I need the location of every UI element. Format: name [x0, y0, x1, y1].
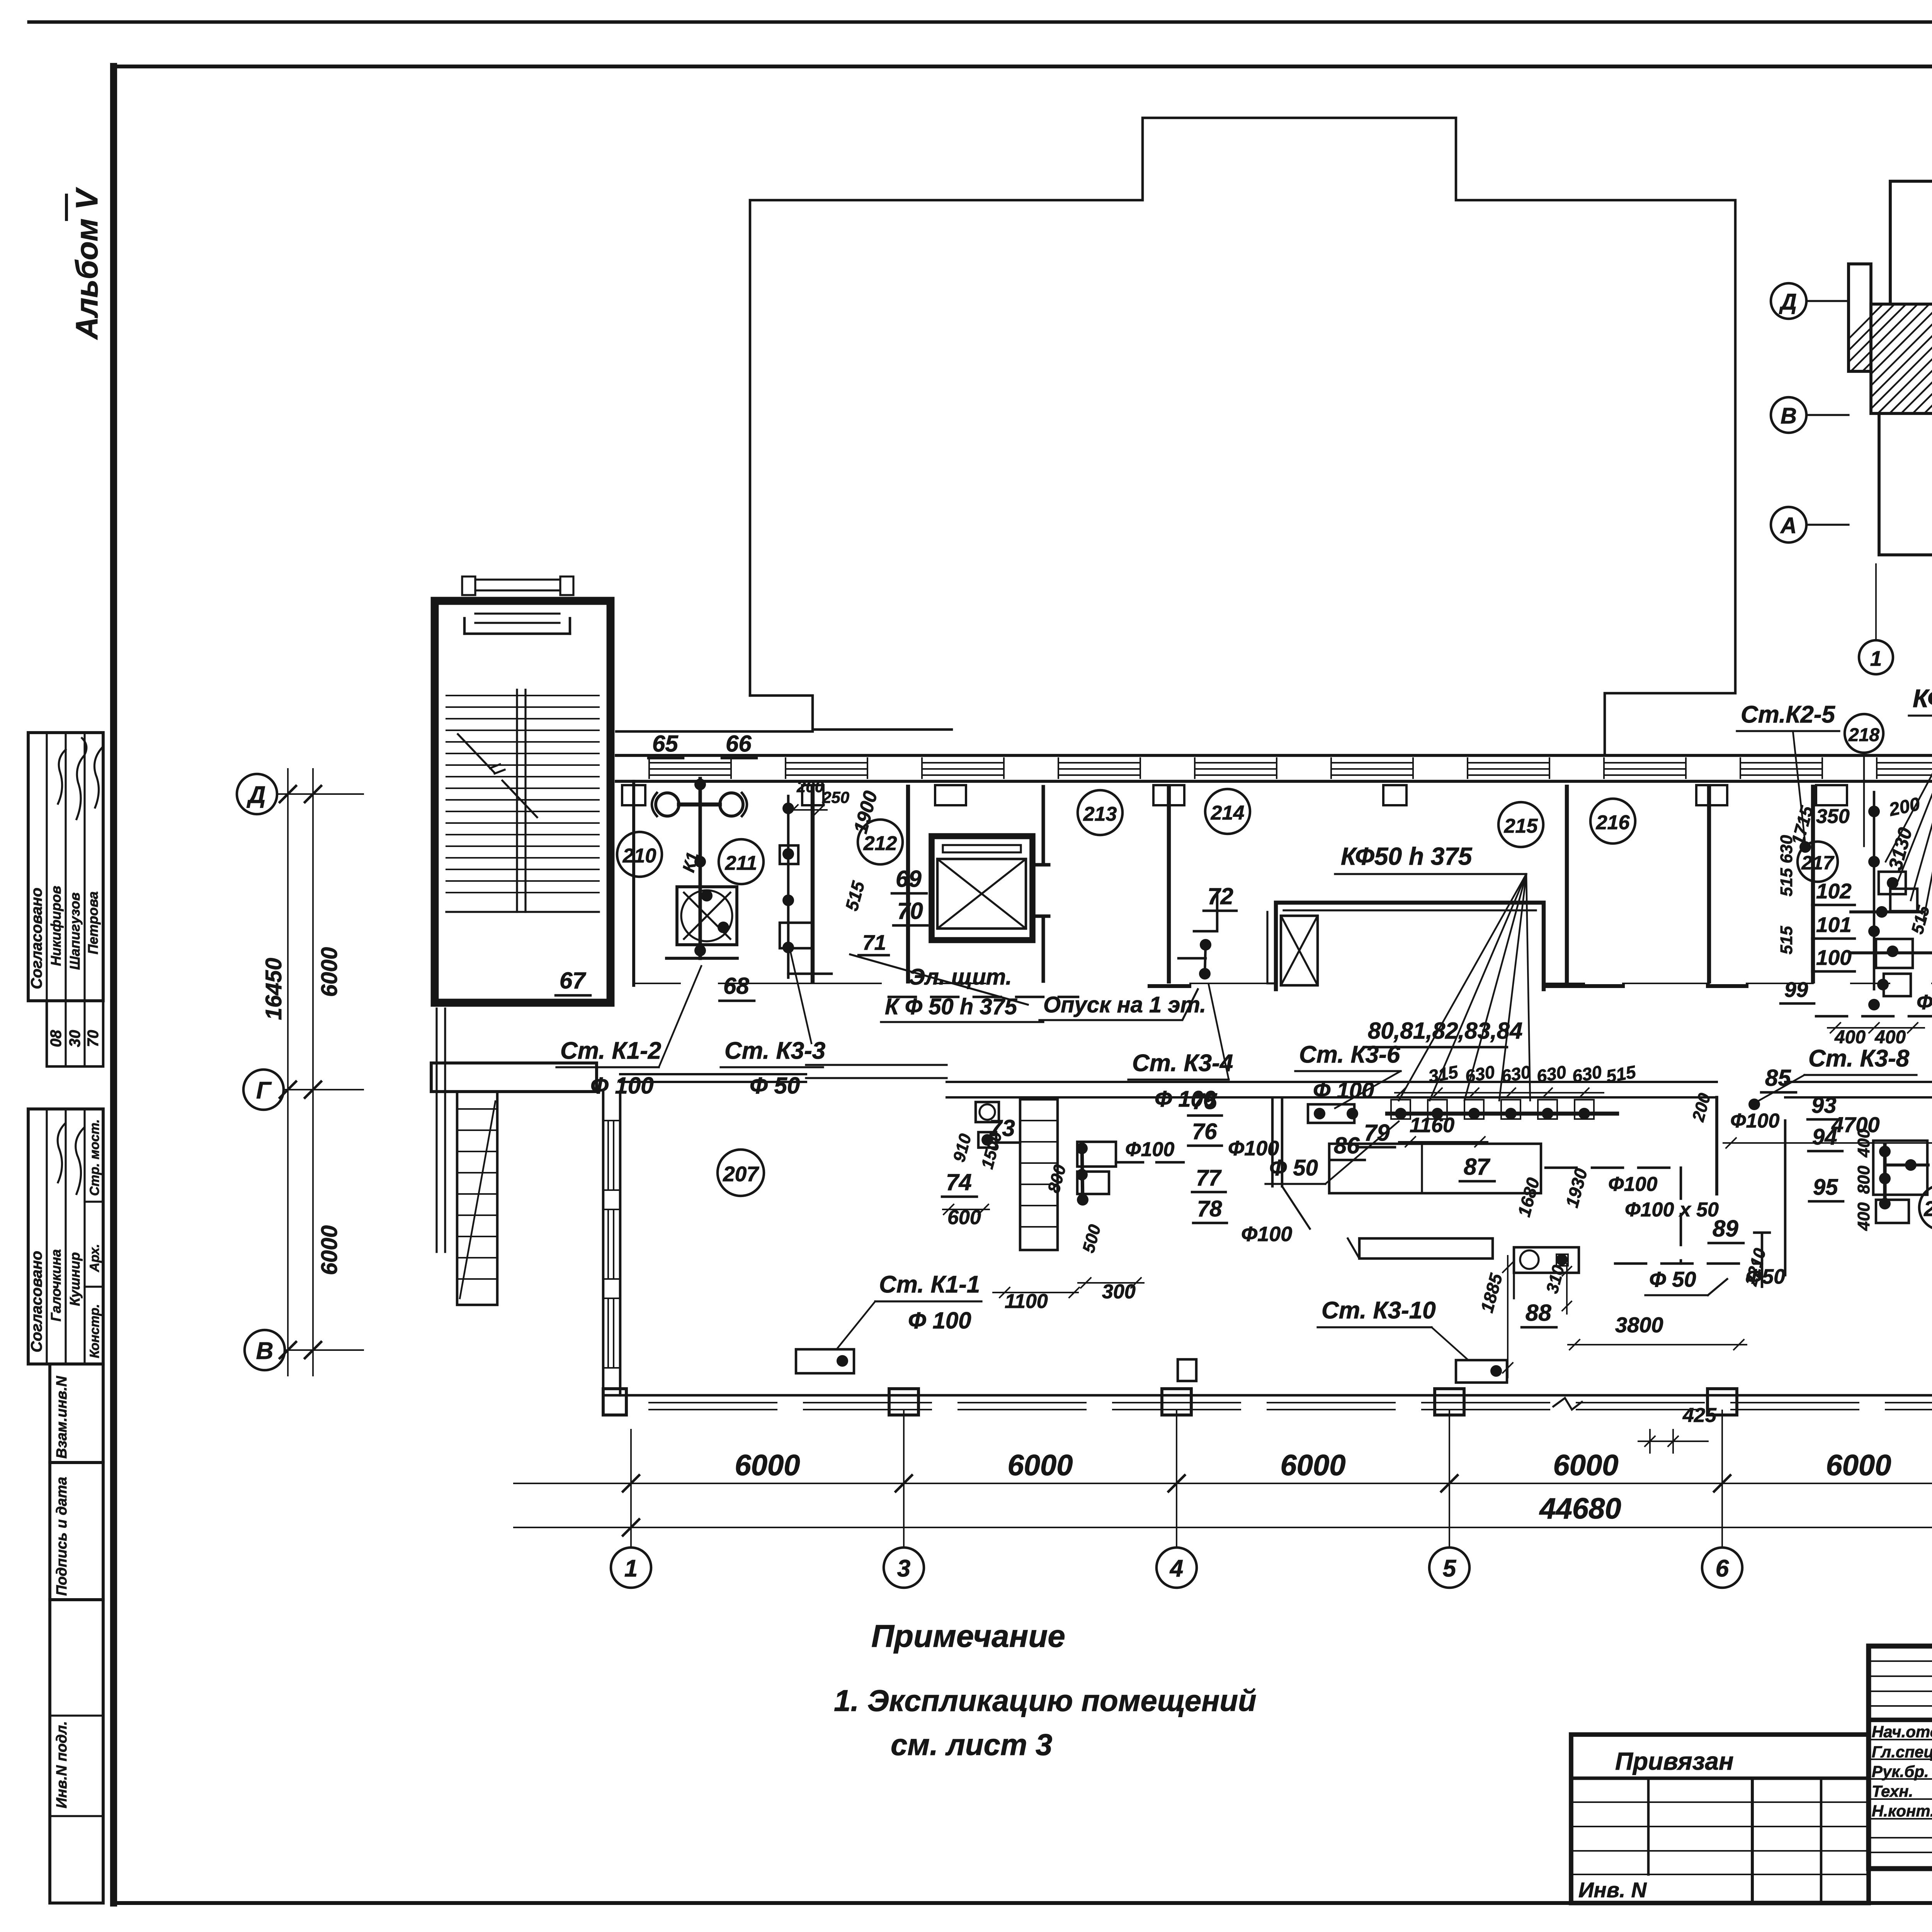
key plan hatch lines [1762, 264, 1932, 413]
svg-text:70: 70 [85, 1030, 102, 1048]
left stair stringer [516, 690, 518, 912]
svg-text:Ф 50: Ф 50 [750, 1073, 800, 1099]
svg-text:08: 08 [48, 1030, 65, 1047]
svg-text:400: 400 [1874, 1027, 1906, 1048]
svg-text:94: 94 [1812, 1124, 1837, 1150]
room partition x=4692 [1811, 787, 1815, 981]
stamp box vzam inv [50, 1364, 103, 1463]
svg-text:Д: Д [247, 782, 266, 808]
svg-text:1: 1 [624, 1555, 638, 1582]
svg-text:Альбом V: Альбом V [70, 187, 104, 340]
svg-text:Ф100: Ф100 [1608, 1173, 1657, 1196]
svg-text:А: А [1780, 513, 1797, 538]
dim line 1885 vertical [1507, 1256, 1509, 1378]
svg-text:Стр. мост.: Стр. мост. [87, 1119, 102, 1196]
approval stamp table 2 [28, 1109, 103, 1364]
room partition x=4055 [1565, 787, 1569, 981]
svg-text:213: 213 [1083, 803, 1117, 825]
svg-text:см. лист 3: см. лист 3 [891, 1728, 1052, 1762]
room 212 circle [858, 820, 903, 864]
svg-text:КФ50 h 375: КФ50 h 375 [1913, 684, 1932, 713]
hall left window wall [602, 1092, 605, 1395]
ramp diagonal [460, 1101, 495, 1298]
washer with circle [1514, 1247, 1579, 1273]
svg-text:Привязан: Привязан [1615, 1747, 1734, 1775]
partition room 212 lift [1032, 787, 1049, 981]
axis G wall left porch [431, 1063, 597, 1092]
title block outer [1869, 1646, 1932, 1869]
svg-text:67: 67 [560, 968, 586, 993]
svg-text:78: 78 [1197, 1196, 1222, 1221]
svg-text:400: 400 [1834, 1027, 1866, 1048]
svg-text:Галочкина: Галочкина [48, 1249, 64, 1321]
wall line above rooms 210-211 [616, 730, 813, 733]
small drain boxes center [1178, 1359, 1196, 1381]
bottom dimension line 6000 segments [514, 1483, 1932, 1484]
corridor exterior wall axis D [616, 754, 1932, 757]
svg-text:Ф100: Ф100 [1917, 991, 1932, 1014]
svg-text:В: В [1781, 403, 1797, 429]
svg-text:80,81,82,83,84: 80,81,82,83,84 [1368, 1018, 1522, 1044]
svg-text:Ст. К3-6: Ст. К3-6 [1299, 1041, 1400, 1068]
svg-text:1. Экспликацию помещений: 1. Экспликацию помещений [834, 1684, 1257, 1718]
svg-text:211: 211 [725, 852, 757, 874]
left exterior ramp [457, 1092, 497, 1305]
sheet outer top edge [29, 20, 1932, 24]
key plan axis circle V [1771, 397, 1806, 433]
svg-text:Ф 50: Ф 50 [1649, 1267, 1696, 1291]
elevator shaft left [932, 836, 1032, 940]
svg-text:102: 102 [1816, 879, 1852, 903]
svg-text:Инв. N: Инв. N [1578, 1878, 1647, 1902]
bottom overall dimension line 44680 [514, 1527, 1932, 1528]
svg-text:44680: 44680 [1539, 1492, 1621, 1525]
svg-text:77: 77 [1196, 1165, 1222, 1190]
K3-6 stand boxes [1308, 1104, 1354, 1123]
svg-text:Ст. К3-4: Ст. К3-4 [1132, 1050, 1233, 1077]
serving counter vertical [1020, 1099, 1058, 1250]
windows in axis D wall [649, 758, 1932, 778]
title block revision grid [1869, 1661, 1932, 1852]
axis G extension and circle [284, 1089, 363, 1090]
key plan upper block outline [1890, 165, 1932, 304]
svg-text:КФ50 h 375: КФ50 h 375 [1341, 842, 1473, 870]
stands row below G wall [1387, 1112, 1617, 1116]
small sink unit top [976, 1102, 999, 1122]
svg-text:Ст.К2-5: Ст.К2-5 [1741, 701, 1836, 728]
dim line 310 vertical [1566, 1264, 1568, 1314]
svg-text:Согласовано: Согласовано [28, 1251, 45, 1352]
svg-text:216: 216 [1596, 811, 1630, 834]
svg-text:Петрова: Петрова [85, 891, 101, 954]
svg-text:89: 89 [1713, 1216, 1738, 1242]
stand room 214 [1179, 893, 1217, 958]
svg-text:Г: Г [256, 1077, 272, 1104]
key plan column circle 1 [1859, 640, 1893, 674]
svg-text:3: 3 [897, 1555, 910, 1582]
big kitchen equipment 87 [1329, 1144, 1541, 1193]
svg-text:Нач.отд.: Нач.отд. [1872, 1723, 1932, 1741]
svg-text:6000: 6000 [1280, 1449, 1345, 1482]
svg-text:16450: 16450 [261, 958, 286, 1020]
room 218 circle [1845, 714, 1883, 753]
svg-text:Ф100 х 50: Ф100 х 50 [1625, 1199, 1719, 1221]
svg-text:6000: 6000 [317, 1225, 342, 1275]
svg-text:210: 210 [622, 845, 656, 867]
svg-text:400: 400 [1854, 1202, 1873, 1231]
svg-text:Д: Д [1779, 289, 1797, 315]
svg-text:Арх.: Арх. [87, 1244, 102, 1272]
column circle 4 [1176, 1410, 1177, 1548]
svg-text:Ф 100: Ф 100 [1155, 1087, 1216, 1112]
svg-text:Ф 100: Ф 100 [590, 1073, 654, 1099]
svg-text:Инв.N подл.: Инв.N подл. [54, 1721, 70, 1808]
room 205 circle [1919, 1185, 1932, 1230]
door threshold bars [1150, 984, 1932, 988]
svg-text:515 630: 515 630 [1777, 835, 1796, 896]
svg-text:93: 93 [1811, 1093, 1837, 1118]
svg-text:400: 400 [1854, 1129, 1873, 1158]
left stair bottom landing [446, 911, 599, 913]
room 211 stands [780, 845, 798, 864]
svg-text:6000: 6000 [735, 1449, 800, 1482]
svg-text:3800: 3800 [1615, 1313, 1663, 1337]
svg-text:205: 205 [1923, 1197, 1932, 1221]
svg-text:100: 100 [1816, 946, 1852, 969]
dashed pipes center [1546, 1167, 1681, 1169]
svg-text:Рук.бр.: Рук.бр. [1872, 1762, 1929, 1781]
corridor left wall at stair [632, 781, 635, 985]
room 211 circle [719, 839, 764, 884]
sanitary stand cluster room 218 [1873, 792, 1876, 989]
svg-text:Шапигузов: Шапигузов [67, 892, 83, 970]
svg-text:5: 5 [1443, 1555, 1457, 1582]
svg-text:Примечание: Примечание [871, 1619, 1065, 1654]
fan leaders to stands [1399, 874, 1530, 1100]
svg-text:66: 66 [726, 731, 752, 757]
svg-text:86: 86 [1334, 1133, 1360, 1158]
room 211 riser line [787, 796, 790, 978]
hall bottom wall axis V [603, 1394, 1932, 1397]
svg-text:Н.конт.: Н.конт. [1872, 1802, 1932, 1820]
svg-text:30: 30 [66, 1030, 83, 1048]
svg-text:70: 70 [897, 898, 923, 924]
column circle 1 [630, 1430, 632, 1548]
svg-text:Кушнир: Кушнир [67, 1252, 83, 1306]
key plan hatched left pier [1849, 264, 1871, 371]
left stair treads [446, 696, 599, 893]
room 216 circle [1590, 799, 1635, 844]
svg-text:6000: 6000 [317, 947, 342, 997]
svg-text:85: 85 [1765, 1065, 1791, 1091]
svg-text:214: 214 [1211, 802, 1245, 824]
svg-text:217: 217 [1801, 852, 1835, 874]
left vertical dimension line 6000s [312, 769, 314, 1376]
svg-text:Констр.: Констр. [87, 1304, 102, 1358]
svg-text:4: 4 [1169, 1555, 1183, 1582]
door leaf room 214 [1267, 912, 1276, 983]
kitchen partition with door [1271, 1099, 1274, 1186]
svg-text:Ф 100: Ф 100 [908, 1308, 971, 1333]
svg-text:68: 68 [723, 973, 749, 999]
key plan lower block outline [1879, 413, 1932, 646]
upper building outline [750, 118, 1735, 755]
svg-text:Ф 50: Ф 50 [1269, 1155, 1318, 1180]
svg-text:95: 95 [1813, 1175, 1838, 1200]
svg-text:Ст. К3-8: Ст. К3-8 [1808, 1045, 1910, 1072]
svg-text:72: 72 [1207, 883, 1233, 909]
axis D extension and circle [277, 793, 363, 795]
column circle 5 [1449, 1410, 1450, 1548]
svg-text:218: 218 [1848, 725, 1879, 745]
room 213 circle [1078, 790, 1122, 835]
svg-text:6000: 6000 [1826, 1449, 1891, 1482]
K1 riser pipe [698, 779, 702, 958]
room pilaster blocks below wall [622, 785, 645, 805]
room partition x=4423 [1707, 787, 1711, 981]
svg-text:800: 800 [1854, 1165, 1873, 1194]
svg-text:99: 99 [1784, 978, 1808, 1002]
privyazan table [1571, 1735, 1869, 1903]
svg-text:К Ф 50 h 375: К Ф 50 h 375 [885, 994, 1017, 1019]
hall 207 circle [718, 1150, 764, 1196]
svg-text:Подпись и дата: Подпись и дата [54, 1477, 70, 1596]
svg-text:425: 425 [1682, 1404, 1717, 1427]
left vertical dimension line 16450 [287, 769, 289, 1376]
svg-text:300: 300 [1102, 1281, 1136, 1303]
svg-text:Ф100: Ф100 [1730, 1110, 1779, 1132]
room partition x=2103 [811, 787, 815, 981]
svg-text:76: 76 [1192, 1119, 1217, 1144]
room 210 circle [617, 832, 662, 877]
small hoist in niche [1281, 916, 1318, 985]
svg-text:Ст. К1-1: Ст. К1-1 [879, 1271, 980, 1298]
svg-text:74: 74 [946, 1169, 972, 1195]
left stair run arrow [458, 734, 537, 817]
left stair entry vestibule [464, 633, 570, 635]
svg-text:В: В [256, 1338, 274, 1364]
svg-text:Ст. К1-2: Ст. К1-2 [560, 1037, 661, 1064]
svg-text:6: 6 [1716, 1555, 1729, 1582]
room partition x=3025 [1167, 787, 1171, 981]
kitchen pass window counter [806, 1077, 947, 1079]
stamp numbers row [47, 1001, 103, 1066]
st K1-1 floor drain box [796, 1349, 854, 1373]
key plan column leaders [1875, 564, 1877, 638]
svg-text:1: 1 [1870, 646, 1882, 670]
approval stamp table 1 [28, 733, 103, 1001]
svg-text:71: 71 [862, 930, 886, 954]
column circle 3 [903, 1410, 905, 1548]
central corridor niche room 215 [1276, 903, 1544, 989]
svg-text:65: 65 [652, 731, 679, 757]
left stair entry canopy [475, 578, 560, 580]
stamp box inv n podl [50, 1600, 103, 1903]
svg-text:250: 250 [822, 788, 849, 806]
svg-text:88: 88 [1526, 1300, 1551, 1326]
svg-text:207: 207 [723, 1162, 759, 1186]
svg-text:87: 87 [1464, 1154, 1490, 1180]
key plan hatched strip [1871, 304, 1932, 413]
room 217 circle [1798, 842, 1838, 882]
axis G wall segments [620, 1074, 1932, 1097]
partial partitions lower halls [1715, 1097, 1718, 1194]
svg-text:212: 212 [863, 832, 897, 855]
svg-text:215: 215 [1504, 815, 1538, 837]
svg-text:1100: 1100 [1005, 1290, 1048, 1313]
svg-text:Ф100: Ф100 [1241, 1223, 1292, 1246]
wall break symbol [1553, 1398, 1582, 1410]
column circle 6 [1721, 1410, 1723, 1548]
svg-text:1160: 1160 [1410, 1114, 1454, 1137]
svg-text:69: 69 [896, 866, 922, 892]
svg-text:350: 350 [1816, 805, 1850, 828]
room 215 circle [1498, 802, 1543, 847]
svg-text:Никифиров: Никифиров [48, 886, 64, 966]
svg-text:515: 515 [1777, 926, 1796, 954]
svg-text:Согласовано: Согласовано [28, 888, 45, 989]
svg-text:Гл.спец.: Гл.спец. [1872, 1743, 1932, 1761]
bottom wall piers [889, 1389, 918, 1415]
stamp box podpis i data [50, 1463, 103, 1600]
room partition x=2350 [906, 787, 910, 981]
205 stand cluster [1873, 1141, 1927, 1195]
svg-text:Опуск на 1 эт.: Опуск на 1 эт. [1043, 992, 1206, 1017]
key plan axis circle A [1771, 507, 1806, 543]
left stairwell walls [435, 601, 611, 1003]
key plan axis circle D [1771, 283, 1806, 319]
svg-text:Взам.инв.N: Взам.инв.N [54, 1376, 70, 1459]
rooms south wall with thresholds [634, 983, 1932, 984]
dashed branch f100 [1816, 1015, 1932, 1018]
K1 dumbbell fixture [656, 793, 679, 816]
svg-text:6000: 6000 [1007, 1449, 1073, 1482]
svg-text:Ф100: Ф100 [1125, 1138, 1174, 1161]
svg-text:101: 101 [1816, 913, 1852, 937]
bath fixture room 210 [677, 887, 737, 945]
room 214 circle [1205, 789, 1250, 834]
svg-text:Техн.: Техн. [1872, 1782, 1913, 1800]
svg-text:Ст. К3-10: Ст. К3-10 [1321, 1297, 1436, 1324]
wash stand cluster [1082, 1143, 1083, 1202]
svg-text:200: 200 [796, 777, 824, 796]
conveyor [1359, 1238, 1493, 1259]
svg-text:6000: 6000 [1553, 1449, 1618, 1482]
axis V extension and circle [285, 1349, 363, 1351]
